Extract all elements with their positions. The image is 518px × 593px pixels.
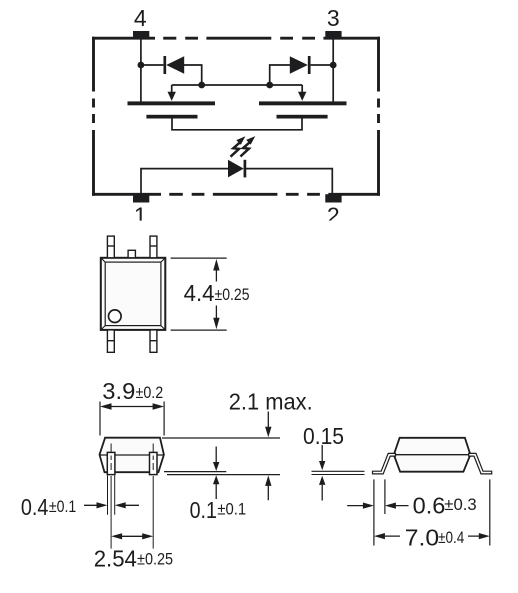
pin1 marker circle [109,310,122,323]
svg-text:±0.2: ±0.2 [136,384,164,402]
dim 0.15 lower arrow [319,476,325,501]
lead centerline extensions [111,476,153,549]
diode D2 cathode bar [308,56,311,74]
svg-text:±0.25: ±0.25 [215,286,250,304]
dim 4.4 extension line top [171,257,227,259]
side view body [394,438,471,472]
svg-text:0.4: 0.4 [21,494,49,520]
LED cathode bar [244,160,247,178]
lead thickness lines [312,471,365,474]
dim 2.1: seating plane line [167,474,280,476]
front view body [100,438,164,473]
wire: node to right diode [311,64,334,66]
svg-text:±0.3: ±0.3 [444,496,476,514]
svg-text:2.54: 2.54 [94,546,137,572]
pin 3 tab [325,31,341,39]
pin 4 tab [133,31,149,39]
bevel corner lines [101,258,166,330]
wire: gate bus horizontal [172,84,303,86]
dim 2.54 arrow line [111,533,153,539]
pin 1 tab [133,194,149,202]
side view left gull-wing lead [373,453,396,474]
svg-text:2: 2 [327,203,340,229]
bottom-left lead [107,330,114,352]
wire: LED right [246,169,332,194]
package body inner [105,262,161,326]
svg-text:3.9: 3.9 [102,378,135,404]
bottom-right lead [150,330,157,352]
arrow into right MOSFET bar [298,85,306,101]
MOSFET Q1 gate bar [146,115,197,119]
wire: left diode to drop [184,65,202,85]
pin 2 tab [325,194,341,202]
diode D1 cathode bar [163,56,166,74]
diode D1 triangle [166,56,184,74]
front view right lead [150,452,158,474]
dim 0.4 arrows [84,502,139,508]
pin 1 label [134,203,147,229]
wire: LED left [141,169,228,194]
wire: pin 4 vertical [140,40,142,103]
wire: gate connection U [172,119,302,130]
dim 2.1 lower arrow [265,475,271,500]
svg-text:2.1 max.: 2.1 max. [229,389,313,415]
side view parting line [394,454,471,456]
dim 3.9 extension lines [100,402,164,436]
front view left lead centerline upper [111,444,153,453]
dim 2.1 upper arrow [265,412,271,438]
svg-text:±0.25: ±0.25 [137,550,173,568]
lead centerline dashes [111,456,153,471]
dim 0.6 extension lines [374,479,385,545]
svg-text:0.6: 0.6 [413,493,446,519]
pin 2 label [327,203,340,229]
front view left lead [107,452,115,474]
svg-text:1: 1 [134,203,147,229]
dim 0.15 upper arrow [319,445,325,470]
body bottom extension line [164,471,226,473]
dim 7.0 arrow line [374,533,490,539]
LED emission arrow 2 [240,136,255,156]
package body outer [101,258,166,330]
svg-text:7.0: 7.0 [405,524,439,550]
dim 7.0 right extension line [489,479,491,545]
arrow into left MOSFET bar [168,85,176,101]
svg-text:4.4: 4.4 [184,280,215,306]
dim 2.1: top edge extension line [162,437,280,439]
front view parting line [100,454,164,456]
top middle boss [128,250,135,257]
dim 3.9 arrow line [100,403,164,409]
node dot gate bus right [266,82,273,89]
node dot left [138,62,145,69]
MOSFET Q2 gate bar [277,115,328,119]
top-right lead [150,236,157,258]
package outline dashed box: right border [377,37,380,196]
svg-text:3: 3 [327,5,340,31]
wire: right diode to drop [270,65,290,85]
top-left lead [107,236,114,258]
dim 4.4 arrow line [213,259,219,329]
MOSFET Q2 source bar [259,101,347,105]
svg-text:0.15: 0.15 [303,423,344,449]
package outline dashed box: top border [92,37,380,40]
package outline dashed box: bottom border [92,193,380,196]
dim 0.1 lower arrow [213,475,219,499]
wire: pin 3 vertical [332,40,334,103]
dim 0.6 arrows [347,503,408,509]
svg-text:0.1: 0.1 [190,497,217,523]
wire: node to left diode [141,64,164,66]
dim 4.4 extension line bottom [171,329,227,331]
lead edge extension lines [108,476,115,515]
LED emission arrow 1 [231,136,246,156]
node dot right [330,62,337,69]
dim 0.1 upper arrow [213,447,219,472]
side view right gull-wing lead [469,453,492,474]
MOSFET Q1 source bar [128,101,216,105]
package outline dashed box: left border [92,37,95,196]
svg-text:4: 4 [134,5,147,31]
diode D2 triangle [290,56,308,74]
LED triangle [228,160,244,178]
svg-text:±0.4: ±0.4 [438,529,464,547]
svg-text:±0.1: ±0.1 [49,498,76,516]
svg-text:±0.1: ±0.1 [217,501,246,519]
node dot gate bus left [198,82,205,89]
